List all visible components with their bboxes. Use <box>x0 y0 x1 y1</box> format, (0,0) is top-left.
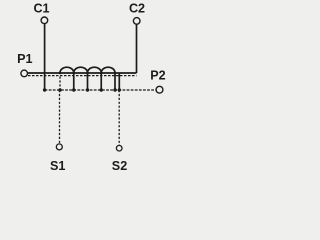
svg-text:P1: P1 <box>17 52 32 66</box>
svg-text:S2: S2 <box>112 159 127 173</box>
svg-text:S1: S1 <box>50 159 65 173</box>
svg-text:P2: P2 <box>150 68 165 82</box>
svg-text:C1: C1 <box>33 1 49 15</box>
svg-text:C2: C2 <box>129 2 145 16</box>
